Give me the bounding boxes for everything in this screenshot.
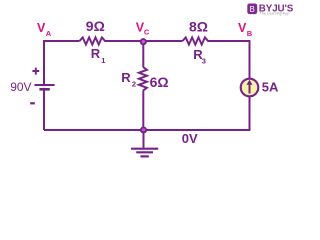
svg-text:90V: 90V xyxy=(10,80,31,94)
current source I1 circle (5A) xyxy=(241,79,259,97)
svg-text:V: V xyxy=(238,21,247,35)
battery 90V short plate xyxy=(39,88,49,91)
svg-text:0V: 0V xyxy=(182,131,198,146)
wire top: node A to R1 xyxy=(44,40,80,42)
svg-text:9Ω: 9Ω xyxy=(86,18,105,34)
svg-text:8Ω: 8Ω xyxy=(189,19,208,35)
svg-text:R: R xyxy=(121,70,131,85)
svg-text:The Learning App: The Learning App xyxy=(260,12,290,16)
svg-text:B: B xyxy=(250,5,255,14)
battery 90V long plate xyxy=(35,84,55,86)
resistor R3 (8 ohm) zigzag xyxy=(183,37,211,44)
resistor R1 (9 ohm) zigzag xyxy=(80,37,109,44)
svg-text:V: V xyxy=(37,21,46,35)
wire middle: node C down to R2 xyxy=(142,41,144,67)
wire middle: R2 down to ground junction xyxy=(142,91,144,131)
battery plus sign xyxy=(32,68,39,75)
resistor R2 (6 ohm) vertical zigzag xyxy=(139,67,147,91)
wire left: battery - plate down to bottom corner xyxy=(43,89,45,130)
svg-text:B: B xyxy=(247,29,253,38)
wire top: R3 to node B corner xyxy=(211,40,250,42)
bottom junction dot xyxy=(141,127,146,132)
wire right: node B down to current source xyxy=(249,40,251,79)
svg-text:1: 1 xyxy=(101,56,105,65)
svg-text:6Ω: 6Ω xyxy=(150,74,169,90)
svg-text:5A: 5A xyxy=(262,79,279,94)
wire bottom xyxy=(44,129,251,131)
svg-text:2: 2 xyxy=(132,79,136,88)
wire top: R1 to R3 through node C xyxy=(108,40,183,42)
svg-text:C: C xyxy=(144,27,150,36)
battery minus sign xyxy=(30,102,35,104)
svg-text:A: A xyxy=(46,29,52,38)
svg-text:3: 3 xyxy=(202,57,206,66)
node C junction dot xyxy=(141,39,146,44)
ground stub wire xyxy=(143,131,145,148)
svg-text:R: R xyxy=(91,46,101,61)
ground symbol xyxy=(131,148,158,150)
BYJU'S logo icon xyxy=(247,4,257,15)
wire right: current source down to bottom corner xyxy=(249,96,251,130)
wire left: node A down to battery + plate xyxy=(43,40,45,85)
current source I1 arrow xyxy=(249,83,251,94)
